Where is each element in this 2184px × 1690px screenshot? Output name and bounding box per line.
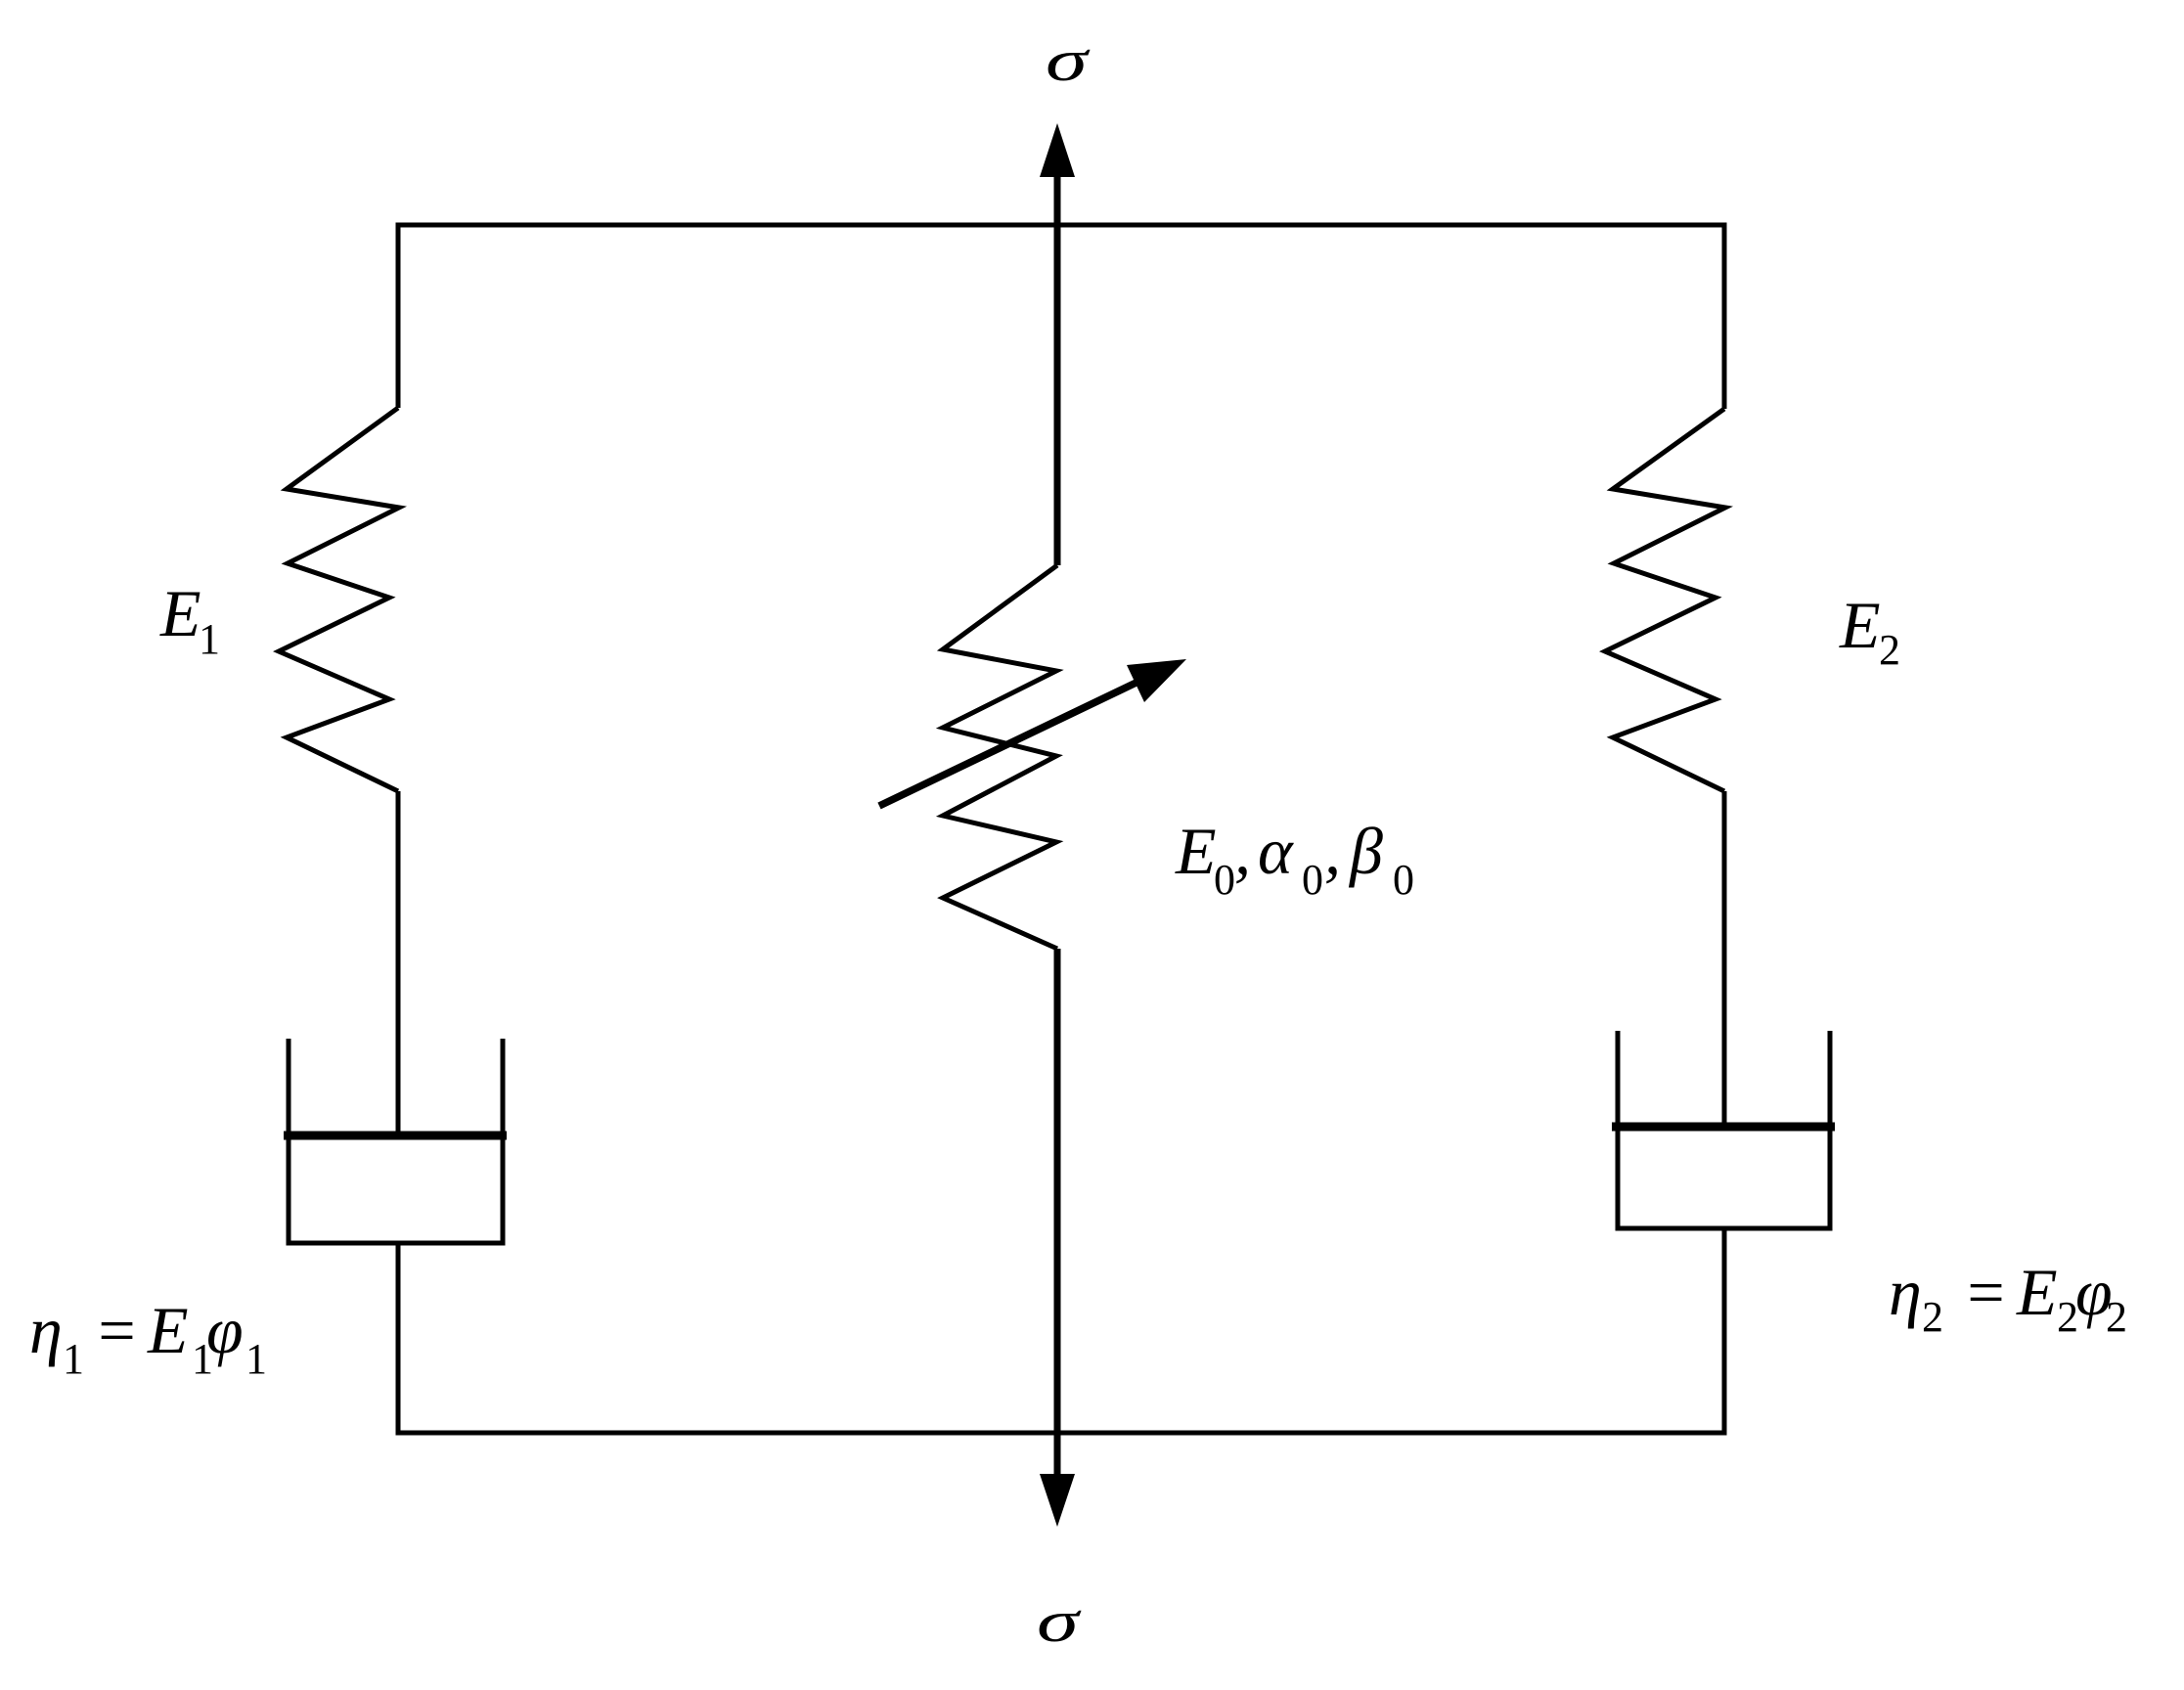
svg-text:0: 0 [1302, 856, 1323, 904]
wire bottom frame: left drop, bottom rail, right drop [398, 1228, 1724, 1433]
svg-text:2: 2 [1922, 1293, 1943, 1341]
svg-text:E: E [2016, 1255, 2058, 1329]
svg-text:0: 0 [1214, 856, 1235, 904]
svg-text:=: = [1963, 1255, 2008, 1329]
wire: E2 spring to dashpot 2 piston rod [1722, 791, 1727, 1126]
svg-text:φ: φ [206, 1293, 244, 1367]
spring E1 (left branch) [279, 408, 399, 791]
svg-text:,: , [1234, 814, 1251, 888]
arrowhead bottom sigma [1040, 1474, 1075, 1527]
wire top frame: left riser, top rail, right riser [398, 225, 1724, 409]
variable-spring arrow shaft [879, 666, 1171, 806]
svg-text:E: E [1839, 588, 1881, 662]
wire: E1 spring to dashpot 1 piston rod [396, 791, 401, 1136]
dashpot eta2 cylinder cup [1618, 1031, 1830, 1228]
svg-text:σ: σ [1037, 1589, 1082, 1655]
spring E0 (middle nonlinear branch) [943, 565, 1057, 949]
variable-spring arrowhead [1127, 659, 1186, 702]
svg-text:0: 0 [1393, 856, 1414, 904]
dashpot eta1 piston plate [284, 1132, 507, 1140]
dashpot eta1 cylinder cup [289, 1039, 503, 1243]
label E0,alpha0,beta0 [1175, 814, 1414, 904]
arrowhead top sigma [1040, 123, 1075, 177]
svg-text:2: 2 [1879, 626, 1900, 674]
svg-text:1: 1 [199, 615, 220, 663]
wire: top stress shaft [1054, 174, 1061, 565]
svg-text:E: E [1175, 814, 1217, 888]
svg-text:β: β [1348, 814, 1383, 888]
svg-text:2: 2 [2106, 1293, 2127, 1341]
label eta2 = E2*phi2 [1889, 1255, 2127, 1341]
svg-text:1: 1 [245, 1335, 267, 1383]
spring E2 (right branch) [1605, 409, 1725, 791]
svg-text:η: η [1889, 1255, 1922, 1329]
svg-text:σ: σ [1046, 28, 1091, 94]
svg-text:E: E [159, 576, 201, 650]
dashpot eta2 piston plate [1612, 1123, 1835, 1132]
label E1 [159, 576, 220, 663]
svg-text:α: α [1258, 814, 1294, 888]
svg-text:=: = [94, 1293, 139, 1367]
label eta1 = E1*phi1 [29, 1293, 267, 1383]
svg-text:1: 1 [63, 1335, 84, 1383]
svg-text:η: η [29, 1293, 63, 1367]
wire: bottom stress shaft [1054, 949, 1061, 1479]
svg-text:,: , [1324, 814, 1341, 888]
label E2 [1839, 588, 1900, 674]
svg-text:E: E [147, 1293, 189, 1367]
